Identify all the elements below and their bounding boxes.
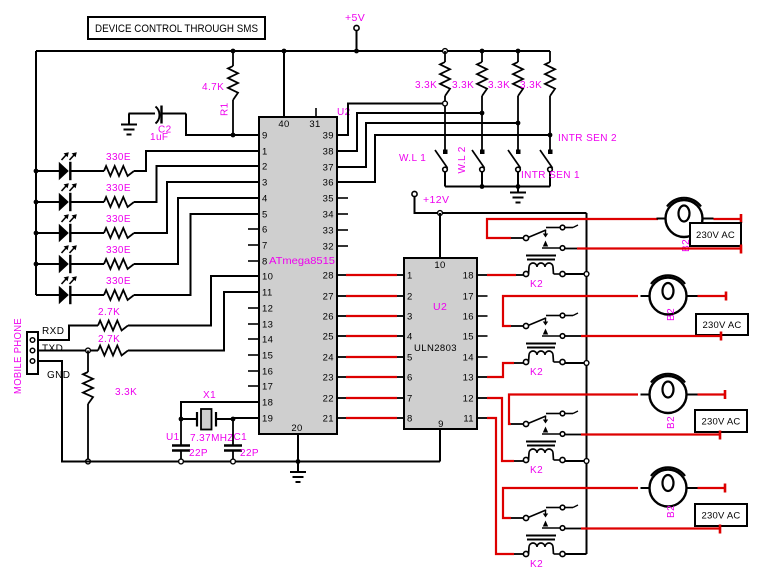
LED D2: [34, 200, 39, 205]
wire pin 38 to W.L2 column: [337, 113, 482, 151]
resistor 330E (LED 4): [104, 259, 134, 269]
relay K2 (3) contacts: [523, 421, 528, 426]
IC U2 ULN2803 body: [404, 258, 477, 429]
wire relay1 coil to +12V rail: [565, 273, 587, 275]
resistor 3.3K (column 2): [480, 49, 485, 54]
lamp B2 (2): [650, 278, 687, 315]
ATmega8515 pin 40 (VCC): [283, 51, 285, 117]
svg-text:330E: 330E: [106, 183, 131, 194]
resistor 2.7K (TXD): [98, 346, 128, 356]
wire bottom ground rail: [62, 461, 440, 463]
ground at switches: [517, 187, 519, 193]
capacitor C2 1uF: [129, 113, 156, 115]
title box DEVICE CONTROL THROUGH SMS: [88, 17, 265, 39]
ATmega8515 right pin stubs (35-32): [337, 197, 348, 199]
svg-text:40: 40: [278, 119, 289, 130]
wire red input y=398: [337, 397, 346, 399]
svg-text:21: 21: [323, 414, 334, 425]
wire 2.7K to pin 11: [128, 292, 259, 351]
svg-text:X1: X1: [203, 390, 216, 401]
relay K2 (4) contacts: [523, 515, 528, 520]
wire relay4 coil to +12V rail: [565, 553, 587, 555]
svg-text:GND: GND: [47, 370, 70, 381]
svg-text:W.L 2: W.L 2: [457, 146, 468, 173]
svg-text:17: 17: [463, 292, 474, 303]
svg-text:20: 20: [291, 423, 302, 434]
wire red input y=418: [337, 417, 346, 419]
wire red input y=357: [337, 356, 346, 358]
svg-text:+12V: +12V: [423, 194, 449, 206]
svg-text:27: 27: [323, 292, 334, 303]
wire R1 to pin 9: [233, 134, 259, 136]
svg-text:W.L 1: W.L 1: [399, 153, 426, 164]
wire relay2 coil to +12V rail: [565, 362, 587, 364]
svg-text:R1: R1: [220, 102, 231, 116]
lamp B2 (4): [650, 470, 687, 507]
svg-text:22: 22: [323, 394, 334, 405]
svg-text:10: 10: [434, 260, 445, 271]
svg-text:K2: K2: [530, 367, 543, 378]
svg-text:15: 15: [262, 351, 273, 362]
ground at pin 20: [297, 462, 299, 473]
switch INTR SEN 1: [516, 150, 521, 155]
svg-text:INTR SEN 2: INTR SEN 2: [558, 133, 617, 144]
relay K2 (3) coil: [526, 441, 556, 443]
resistor 3.3K (serial): [87, 351, 89, 373]
svg-text:19: 19: [262, 414, 273, 425]
svg-text:18: 18: [463, 271, 474, 282]
wire LED3 to pin 3: [134, 182, 259, 233]
svg-text:330E: 330E: [106, 152, 131, 163]
svg-text:1: 1: [407, 271, 413, 282]
svg-text:3.3K: 3.3K: [488, 80, 510, 91]
svg-text:3: 3: [262, 178, 268, 189]
wire pin18 to crystal: [181, 402, 259, 419]
svg-text:5: 5: [407, 353, 413, 364]
wire left LED rail: [35, 51, 37, 295]
wire relay3 coil to +12V rail: [565, 460, 587, 462]
wire red input y=296: [337, 295, 346, 297]
svg-text:31: 31: [309, 119, 320, 130]
wire red input y=316: [337, 315, 346, 317]
svg-text:1uF: 1uF: [150, 132, 168, 143]
svg-text:4: 4: [407, 332, 413, 343]
wire lamp4 to 230V AC (red): [698, 487, 726, 489]
svg-text:12: 12: [463, 394, 474, 405]
wire lamp2 to 230V AC (red): [698, 295, 727, 297]
svg-text:36: 36: [323, 178, 334, 189]
resistor 3.3K (column 3): [516, 49, 521, 54]
wire relay2 pole to lamp2 (red): [503, 296, 638, 326]
svg-text:330E: 330E: [106, 245, 131, 256]
wire TXD: [38, 350, 98, 352]
svg-text:32: 32: [323, 242, 334, 253]
wire red input y=275: [337, 274, 346, 276]
svg-text:7.37MHZ: 7.37MHZ: [190, 433, 234, 444]
svg-text:15: 15: [463, 332, 474, 343]
svg-text:23: 23: [323, 373, 334, 384]
svg-text:DEVICE CONTROL THROUGH SMS: DEVICE CONTROL THROUGH SMS: [95, 23, 258, 35]
wire relay1 pole to lamp1 (red): [487, 219, 658, 238]
wire pin 36 to INTR SEN2 column: [337, 135, 550, 182]
svg-text:6: 6: [262, 225, 268, 236]
wire LED1 to pin 1: [134, 151, 259, 171]
svg-text:B2: B2: [666, 308, 677, 321]
svg-text:5: 5: [262, 210, 268, 221]
svg-text:230V AC: 230V AC: [703, 320, 742, 331]
svg-text:8: 8: [407, 414, 413, 425]
wire +12V to ULN pin 10: [438, 211, 443, 216]
svg-text:10: 10: [262, 272, 273, 283]
wire +5V top rail: [36, 50, 550, 52]
lamp B2 (3): [650, 376, 687, 413]
svg-text:7: 7: [407, 394, 413, 405]
svg-text:U1: U1: [166, 432, 180, 443]
wire +12V vertical rail (right): [586, 213, 588, 554]
svg-text:37: 37: [323, 163, 334, 174]
wire 2.7K to pin 10: [128, 276, 259, 326]
LED D4: [34, 262, 39, 267]
svg-text:26: 26: [323, 312, 334, 323]
svg-text:B2: B2: [666, 505, 677, 518]
svg-text:14: 14: [262, 335, 273, 346]
wire RXD: [38, 326, 98, 341]
lamp B2 (1): [666, 200, 703, 237]
svg-text:39: 39: [323, 131, 334, 142]
wire LED4 to pin 4: [134, 198, 259, 264]
wire relay1 NO contact to 230V AC return (red): [565, 248, 577, 250]
relay K2 (2) contacts: [523, 323, 528, 328]
svg-text:2.7K: 2.7K: [98, 334, 120, 345]
source 230V AC (4): [695, 504, 747, 526]
svg-text:35: 35: [323, 194, 334, 205]
wire switch common rail: [445, 186, 550, 188]
svg-text:MOBILE PHONE: MOBILE PHONE: [13, 318, 24, 394]
svg-text:18: 18: [262, 398, 273, 409]
ATmega8515 pin 31 stub: [315, 108, 317, 117]
wire +12V rail: [415, 197, 587, 214]
relay K2 (2) coil: [526, 343, 556, 345]
svg-text:22P: 22P: [189, 448, 208, 459]
svg-text:8: 8: [262, 257, 268, 268]
svg-text:K2: K2: [530, 559, 543, 568]
resistor 3.3K (column 4): [549, 51, 551, 62]
wire lamp1 to 230V AC (red): [714, 218, 742, 220]
svg-text:17: 17: [262, 382, 273, 393]
svg-text:U2: U2: [433, 301, 447, 313]
svg-text:C1: C1: [234, 432, 248, 443]
ATmega8515 pin 20 (GND): [297, 434, 299, 462]
IC U1 ATmega8515 body: [259, 117, 337, 434]
svg-text:330E: 330E: [106, 276, 131, 287]
svg-text:ULN2803: ULN2803: [414, 343, 457, 354]
svg-text:4.7K: 4.7K: [202, 82, 224, 93]
wire crystal to pin 19: [233, 417, 259, 419]
svg-text:14: 14: [463, 353, 474, 364]
wire LED2 to pin 2: [134, 166, 259, 202]
switch INTR SEN 2: [548, 150, 553, 155]
svg-text:9: 9: [262, 131, 268, 142]
wire C2 to pin9 node: [186, 114, 233, 136]
svg-text:16: 16: [463, 312, 474, 323]
relay K2 (1) coil: [526, 255, 556, 257]
svg-text:K2: K2: [530, 465, 543, 476]
LED D5: [36, 294, 60, 296]
svg-text:2: 2: [262, 162, 268, 173]
+12V supply terminal: [412, 191, 417, 196]
svg-text:7: 7: [262, 241, 268, 252]
capacitor 22P (left): [180, 419, 182, 445]
svg-text:330E: 330E: [106, 214, 131, 225]
svg-text:11: 11: [262, 288, 273, 299]
capacitor 22P (right): [232, 419, 234, 445]
wire lamp3 to 230V AC (red): [698, 393, 726, 395]
svg-text:33: 33: [323, 226, 334, 237]
resistor R1 4.7K: [231, 49, 236, 54]
wire ULN pin18 to relay1 coil (red): [477, 274, 487, 276]
wire ULN pin12 to relay3 coil (red): [477, 397, 487, 399]
svg-text:22P: 22P: [240, 448, 259, 459]
resistor 330E (LED 5): [104, 290, 134, 300]
wire LED5 to pin 5: [134, 214, 259, 295]
svg-text:2.7K: 2.7K: [98, 307, 120, 318]
svg-text:3.3K: 3.3K: [415, 80, 437, 91]
wire relay3 NO contact to 230V AC return (red): [565, 434, 581, 436]
ULN2803 pin 9 to ground rail: [439, 429, 441, 462]
svg-text:TXD: TXD: [42, 344, 63, 355]
svg-text:3.3K: 3.3K: [115, 387, 137, 398]
svg-text:3.3K: 3.3K: [452, 80, 474, 91]
svg-text:28: 28: [323, 271, 334, 282]
LED D3: [34, 231, 39, 236]
resistor 2.7K (RXD): [98, 321, 128, 331]
wire relay4 pole to lamp4 (red): [503, 488, 638, 518]
resistor 330E (LED 1): [104, 166, 134, 176]
wire relay3 pole to lamp3 (red): [509, 395, 638, 425]
source 230V AC (1): [690, 223, 741, 246]
crystal X1 7.37MHZ: [181, 418, 197, 420]
svg-text:+5V: +5V: [345, 12, 365, 24]
svg-text:INTR SEN 1: INTR SEN 1: [521, 170, 580, 181]
switch W.L 1: [443, 150, 448, 155]
svg-text:4: 4: [262, 194, 268, 205]
svg-text:3.3K: 3.3K: [520, 80, 542, 91]
relay K2 (4) coil: [526, 535, 556, 537]
svg-text:12: 12: [262, 304, 273, 315]
svg-text:13: 13: [463, 373, 474, 384]
svg-text:16: 16: [262, 367, 273, 378]
svg-text:230V AC: 230V AC: [702, 511, 741, 522]
ground at C2: [128, 114, 130, 125]
resistor 330E (LED 3): [104, 228, 134, 238]
svg-text:B2: B2: [666, 416, 677, 429]
svg-text:230V AC: 230V AC: [702, 417, 741, 428]
svg-text:RXD: RXD: [42, 326, 64, 337]
source 230V AC (3): [695, 410, 747, 432]
junction pin39 column: [443, 101, 448, 106]
svg-text:13: 13: [262, 320, 273, 331]
switch W.L 2: [480, 150, 485, 155]
svg-text:2: 2: [407, 292, 413, 303]
wire relay4 NO contact to 230V AC return (red): [565, 528, 581, 530]
svg-text:38: 38: [323, 147, 334, 158]
resistor 330E (LED 2): [104, 197, 134, 207]
wire red input y=336: [337, 335, 346, 337]
wire red input y=377: [337, 376, 346, 378]
svg-text:34: 34: [323, 210, 334, 221]
wire GND to bottom rail: [38, 361, 88, 462]
svg-text:25: 25: [323, 332, 334, 343]
ATmega8515 left pin stubs: [248, 228, 259, 230]
wire ULN pin13 to relay2 coil (red): [477, 376, 487, 378]
resistor 3.3K (column 1): [443, 49, 448, 54]
wire ULN pin11 to relay4 coil (red): [477, 417, 487, 419]
svg-text:K2: K2: [530, 279, 543, 290]
svg-text:9: 9: [438, 419, 444, 430]
wire pin 39 to W.L1 column: [337, 104, 445, 136]
svg-text:6: 6: [407, 373, 413, 384]
svg-text:ATmega8515: ATmega8515: [269, 255, 335, 267]
source 230V AC (2): [696, 314, 748, 335]
svg-text:3: 3: [407, 312, 413, 323]
LED D1: [34, 169, 39, 174]
wire relay2 NO contact to 230V AC return (red): [565, 335, 581, 337]
relay K2 (1) contacts: [523, 235, 528, 240]
connector J1 MOBILE PHONE: [27, 332, 38, 374]
svg-text:24: 24: [323, 353, 334, 364]
svg-text:11: 11: [463, 414, 474, 425]
wire pin 37 to INTR SEN1 column: [337, 123, 518, 167]
svg-text:230V AC: 230V AC: [696, 230, 735, 241]
svg-text:1: 1: [262, 147, 268, 158]
ULN2803 right stubs: [477, 295, 488, 297]
